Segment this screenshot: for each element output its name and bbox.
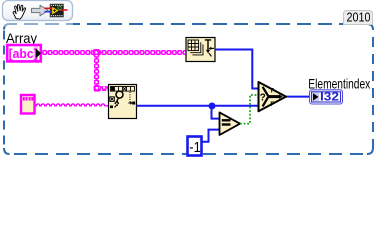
snippet border corners [4,24,373,154]
Equal? comparison node [220,112,241,135]
wire: string array corner bead [94,85,101,92]
toolbar box [3,1,73,21]
wire junction bead [93,49,100,56]
Select node [259,82,287,111]
wire: branch down to Equal [212,106,220,119]
Search 1D Array node [109,85,137,119]
toolbar hand icon [12,4,26,20]
wire: string array vertical drop [94,55,99,86]
Elementindex I32 indicator terminal [310,90,343,104]
wire: Select output to Elementindex [286,96,311,98]
snippet border top [9,23,368,25]
svg-text:I32: I32 [320,92,339,104]
svg-text:F: F [270,101,274,108]
wire: string array horizontal (Array to Array Size) [42,50,186,55]
snippet border right [372,30,374,149]
toolbar arrow icon [32,5,49,16]
LabVIEW version tab 2010 [344,10,373,25]
toolbar shadow mute over border [3,22,73,27]
wire: string array stub into Search node [99,86,109,91]
svg-text:[abc]: [abc] [9,46,38,61]
wire: I32 from Array Size to Select t input [215,50,259,89]
svg-text:-1: -1 [189,140,201,156]
svg-text:Elementindex: Elementindex [308,75,370,91]
wire: -1 constant to Equal [202,130,220,142]
wire: string scalar squiggle [35,104,109,106]
toolbar VI icon [45,4,68,17]
snippet border bottom [9,153,368,155]
snippet border left [3,30,5,149]
constant -1 [188,137,202,157]
wire: I32 main from Search output to Select f input [137,105,259,107]
Array Size node [186,38,215,62]
Array string-array control terminal [7,45,41,61]
wire: boolean from Equal to Select s input [240,95,259,124]
svg-text:2010: 2010 [347,10,371,25]
empty string constant [21,95,35,114]
wire junction dot [209,103,216,110]
